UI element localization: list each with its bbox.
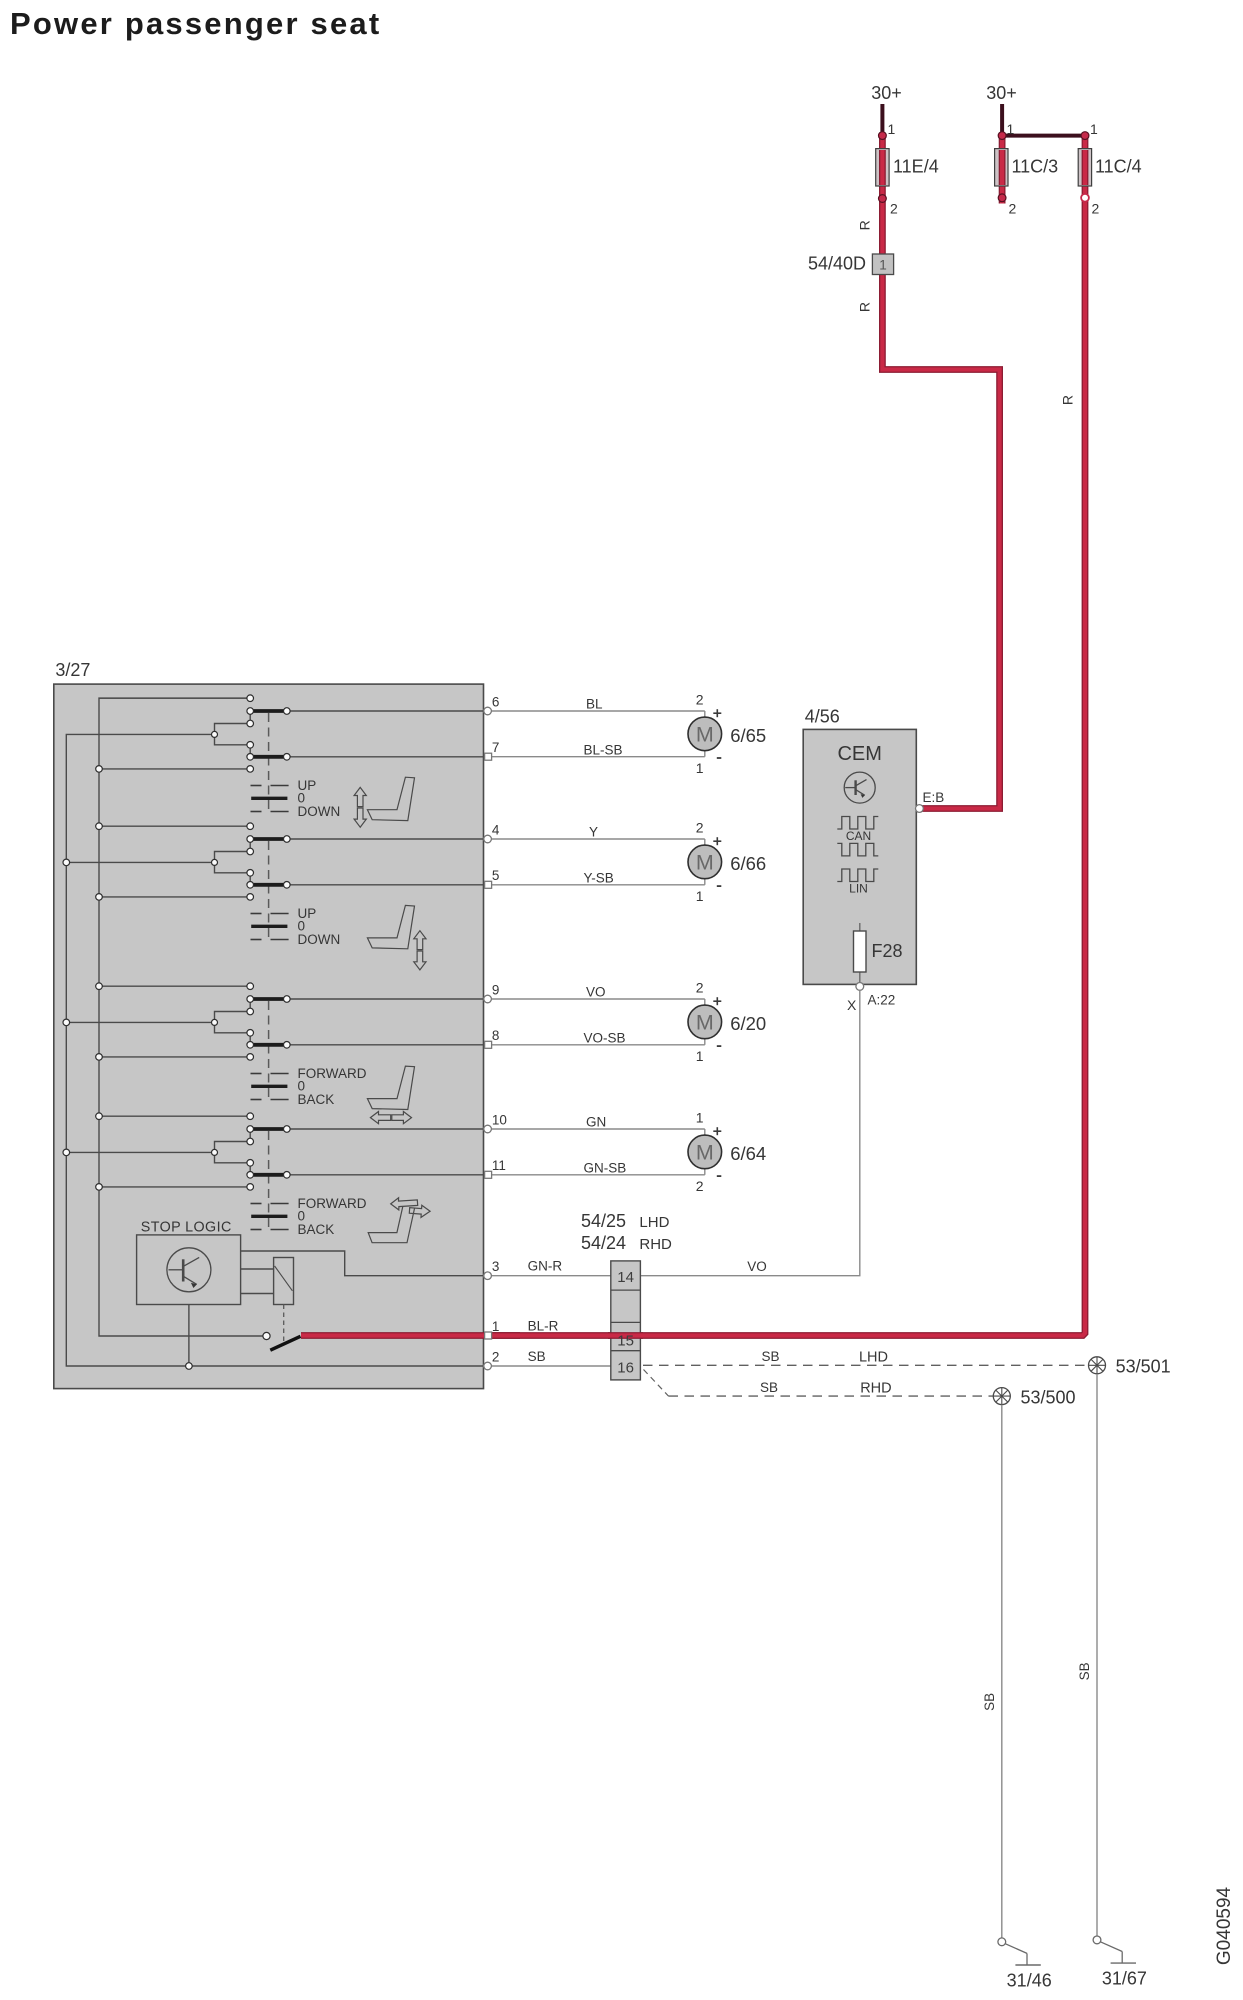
switch group 4 contact links (249, 1129, 251, 1142)
relay coil box (274, 1258, 294, 1305)
svg-text:6: 6 (492, 694, 500, 709)
ground 31/46 (998, 1938, 1006, 1946)
node pin 1 of 11E/4 (879, 132, 887, 140)
svg-text:1: 1 (879, 258, 887, 273)
motor 6/64 (688, 1135, 722, 1169)
switch group 3 output wire 2 (287, 1044, 484, 1046)
svg-text:31/67: 31/67 (1102, 1968, 1147, 1988)
svg-text:53/500: 53/500 (1021, 1388, 1076, 1408)
svg-text:5: 5 (492, 868, 500, 883)
node bus1 taps (96, 766, 103, 773)
svg-text:16: 16 (617, 1360, 634, 1377)
svg-text:Y: Y (589, 825, 598, 840)
svg-text:1: 1 (696, 888, 704, 904)
svg-text:LHD: LHD (639, 1214, 669, 1231)
svg-text:11: 11 (492, 1158, 506, 1173)
switch lever (270, 1336, 300, 1350)
svg-text:CAN: CAN (846, 829, 871, 843)
switch group 3 feed wire top (99, 985, 250, 987)
svg-text:SB: SB (1077, 1662, 1092, 1680)
wire VO from CEM A:22 to connector cell 14 (640, 990, 859, 1275)
svg-text:2: 2 (696, 692, 704, 708)
wire R from 11C/4 down to connector pin 15 row (301, 136, 1085, 1336)
svg-text:11C/3: 11C/3 (1012, 157, 1059, 177)
svg-text:1: 1 (696, 1048, 704, 1064)
fuse F28 (859, 923, 861, 983)
svg-text:LHD: LHD (859, 1349, 888, 1365)
svg-text:CEM: CEM (837, 743, 881, 765)
CAN waveform icon lower (837, 843, 878, 856)
wire SB 53/501 to ground 31/67 (1096, 1374, 1098, 1937)
svg-text:2: 2 (1092, 201, 1100, 217)
switch group 4 mid wire (66, 1151, 214, 1153)
svg-text:2: 2 (696, 980, 704, 996)
switch group 4 contact bar 1 (253, 1127, 285, 1131)
switch group 1 output wire 1 (287, 710, 484, 712)
switch group 1 nodes (247, 695, 254, 702)
svg-text:30+: 30+ (986, 83, 1017, 103)
svg-text:6/66: 6/66 (730, 853, 766, 874)
switch group 4 feed wire top (99, 1115, 250, 1117)
icon backrest tilt (group 4) (368, 1207, 414, 1243)
connector 54/40D (872, 254, 893, 275)
node E:B pin of CEM (916, 805, 924, 813)
node junction group 4 (212, 1149, 218, 1155)
switch group 3 dashed actuator line (268, 1001, 270, 1099)
wire VO-SB pin 8 to motor 6/20 (492, 1044, 705, 1046)
switch group 3 contact links (249, 999, 251, 1012)
svg-text:GN-R: GN-R (528, 1259, 563, 1274)
svg-text:SB: SB (528, 1349, 546, 1364)
wire SB 53/500 to ground 31/46 (1001, 1405, 1003, 1939)
icon seat height front (group 1) (367, 777, 414, 820)
wire GN-SB pin 11 to motor 6/64 (492, 1174, 705, 1176)
wire stop logic to SB bus (188, 1305, 190, 1367)
svg-text:1: 1 (1007, 121, 1015, 137)
wire bus left 2 (SB common) (66, 734, 483, 1366)
wire 30+ stub 2 (1000, 104, 1004, 133)
wire 30+ stub 1 (880, 104, 884, 133)
dashed relay actuator (283, 1305, 285, 1342)
wire R from fuse 11E/4 through 54/40D to CEM E:B (879, 136, 886, 254)
switch group 4 position symbol (251, 1203, 262, 1205)
switch group 1 contact bar 1 (253, 709, 285, 713)
svg-text:31/46: 31/46 (1007, 1970, 1052, 1990)
svg-text:Power passenger seat: Power passenger seat (10, 6, 381, 41)
switch group 2 feed wire top (99, 825, 250, 827)
switch group 1 staircase (215, 724, 251, 745)
svg-text:R: R (856, 220, 872, 230)
switch group 3 contact bar 2 (253, 1043, 285, 1047)
switch group 4 staircase (215, 1142, 251, 1163)
svg-text:2: 2 (696, 820, 704, 836)
svg-text:FORWARD: FORWARD (298, 1066, 367, 1081)
switch group 4 output wire 2 (287, 1174, 484, 1176)
switch group 1 contact bar 2 (253, 755, 285, 759)
switch group 4 nodes (247, 1113, 254, 1120)
svg-text:BACK: BACK (298, 1092, 335, 1107)
switch group 1 output wire 2 (287, 756, 484, 758)
svg-text:15: 15 (617, 1333, 634, 1350)
wire stop logic to relay (241, 1268, 274, 1270)
motor 6/66 (688, 845, 722, 879)
wire bus left (common feed) (99, 698, 263, 1336)
svg-text:54/25: 54/25 (581, 1211, 626, 1231)
ground 31/67 (1093, 1936, 1101, 1944)
svg-text:1: 1 (696, 760, 704, 776)
wire link pin1 11C/3 to pin1 11C/4 (1002, 134, 1085, 138)
svg-text:RHD: RHD (639, 1236, 672, 1253)
switch group 2 nodes (247, 823, 254, 830)
switch group 3 contact bar 1 (253, 997, 285, 1001)
svg-text:M: M (696, 722, 714, 746)
svg-text:DOWN: DOWN (298, 804, 341, 819)
connector strip 54/25 (611, 1261, 641, 1380)
svg-text:RHD: RHD (860, 1380, 891, 1396)
switch group 2 contact links (249, 839, 251, 852)
fuse 11C/3 (995, 149, 1008, 186)
svg-text:11C/4: 11C/4 (1095, 157, 1142, 177)
svg-text:BL: BL (586, 697, 603, 712)
svg-text:4: 4 (492, 822, 500, 837)
svg-text:54/24: 54/24 (581, 1233, 626, 1253)
node bus2 group 4 (63, 1149, 70, 1156)
svg-text:1: 1 (696, 1110, 704, 1126)
ECU CEM box (803, 729, 916, 984)
svg-text:54/40D: 54/40D (808, 254, 866, 274)
switch group 3 nodes (247, 983, 254, 990)
svg-text:M: M (696, 851, 714, 875)
svg-text:BACK: BACK (298, 1222, 335, 1237)
node junction group 2 (212, 859, 218, 865)
node junction group 3 (212, 1019, 218, 1025)
svg-text:BL-SB: BL-SB (584, 742, 623, 757)
svg-text:VO: VO (747, 1259, 767, 1274)
switch group 3 staircase (215, 1012, 251, 1033)
switch group 4 output wire 1 (287, 1128, 484, 1130)
icon seat height rear (group 2) (367, 905, 414, 948)
wire Y pin 4 to motor 6/66 (492, 838, 705, 840)
switch group 4 contact bar 2 (253, 1173, 285, 1177)
svg-text:8: 8 (492, 1028, 500, 1043)
node switch contact (263, 1332, 270, 1339)
svg-text:VO-SB: VO-SB (584, 1030, 626, 1045)
svg-text:DOWN: DOWN (298, 932, 341, 947)
switch group 1 feed wire top (99, 697, 250, 699)
svg-text:LIN: LIN (849, 882, 868, 896)
switch group 2 contact bar 2 (253, 883, 285, 887)
node bus2 group 3 (63, 1019, 70, 1026)
svg-text:3/27: 3/27 (55, 660, 90, 680)
svg-text:11E/4: 11E/4 (893, 157, 939, 177)
svg-text:STOP LOGIC: STOP LOGIC (141, 1220, 232, 1236)
svg-text:Y-SB: Y-SB (584, 870, 614, 885)
switch group 2 mid wire (66, 861, 214, 863)
svg-text:1: 1 (492, 1319, 500, 1334)
icon seat slide (group 3) (367, 1066, 414, 1109)
ground connector 53/500 (993, 1388, 1010, 1405)
wire BL-SB pin 7 to motor 6/65 (492, 756, 705, 758)
wire GN-R pin 3 to connector cell 14 (483, 1275, 611, 1277)
svg-text:GN: GN (586, 1115, 606, 1130)
switch group 3 feed wire bottom (99, 1056, 250, 1058)
svg-text:M: M (696, 1141, 714, 1165)
switch group 2 position symbol (251, 913, 262, 915)
switch group 2 feed wire bottom (99, 896, 250, 898)
switch group 1 feed wire bottom (99, 768, 250, 770)
switch group 4 dashed actuator line (268, 1131, 270, 1229)
switch group 3 position symbol (251, 1073, 262, 1075)
node pin 1 of 11C/3 (998, 132, 1006, 140)
node stop logic SB junction (186, 1363, 193, 1370)
svg-text:6/65: 6/65 (730, 725, 766, 746)
node pin 1 of 11C/4 (1081, 132, 1089, 140)
svg-text:R: R (1060, 395, 1076, 405)
node bus2 group 2 (63, 859, 70, 866)
svg-text:VO: VO (586, 985, 606, 1000)
svg-text:6/64: 6/64 (730, 1143, 766, 1164)
switch group 2 staircase (215, 852, 251, 873)
svg-text:2: 2 (1009, 201, 1017, 217)
switch group 4 feed wire bottom (99, 1186, 250, 1188)
node pin 2 of 11E/4 (879, 195, 887, 203)
svg-text:2: 2 (492, 1349, 500, 1364)
stop logic box (137, 1235, 241, 1305)
wire stop logic to GN-R output (241, 1251, 483, 1276)
svg-text:BL-R: BL-R (528, 1318, 559, 1333)
svg-text:R: R (856, 302, 872, 312)
node A:22 pin of CEM (856, 983, 864, 991)
wire VO pin 9 to motor 6/20 (492, 998, 705, 1000)
pin markers on 3/27 (484, 707, 492, 715)
svg-text:A:22: A:22 (868, 993, 896, 1008)
svg-text:1: 1 (1090, 121, 1098, 137)
motor 6/65 (688, 717, 722, 751)
fuse 11C/4 (1078, 149, 1091, 186)
svg-text:9: 9 (492, 982, 500, 997)
switch group 2 output wire 2 (287, 884, 484, 886)
svg-text:SB: SB (760, 1380, 778, 1395)
wire SB pin 2 to connector cell 16 (483, 1365, 611, 1367)
switch group 1 dashed actuator line (268, 713, 270, 811)
svg-text:M: M (696, 1011, 714, 1035)
svg-text:3: 3 (492, 1259, 500, 1274)
svg-text:F28: F28 (872, 941, 903, 961)
ground connector 53/501 (1089, 1357, 1106, 1374)
wire BL-R through cell 15 (608, 1332, 643, 1339)
svg-text:FORWARD: FORWARD (298, 1196, 367, 1211)
svg-text:30+: 30+ (871, 83, 902, 103)
svg-text:SB: SB (761, 1349, 779, 1364)
switch group 3 output wire 1 (287, 998, 484, 1000)
transistor icon CEM (844, 772, 875, 803)
switch group 2 output wire 1 (287, 838, 484, 840)
fuse 11E/4 (876, 149, 889, 186)
wire BL pin 6 to motor 6/65 (492, 710, 705, 712)
switch group 2 dashed actuator line (268, 841, 270, 939)
svg-text:4/56: 4/56 (805, 707, 840, 727)
switch group 1 contact links (249, 711, 251, 724)
motor 6/20 (688, 1005, 722, 1039)
svg-text:G040594: G040594 (1214, 1886, 1235, 1965)
svg-text:2: 2 (696, 1178, 704, 1194)
transistor icon stop logic (167, 1248, 211, 1292)
switch unit 3/27 box (54, 684, 484, 1389)
svg-text:X: X (847, 997, 857, 1013)
LIN waveform icon (837, 869, 878, 882)
dashed wire SB RHD to 53/500 (644, 1370, 669, 1397)
svg-text:7: 7 (492, 740, 500, 755)
wire through fuse 11C/3 (999, 136, 1006, 204)
switch group 1 position symbol (251, 785, 262, 787)
CAN waveform icon (837, 817, 878, 830)
svg-text:E:B: E:B (923, 790, 945, 805)
svg-text:6/20: 6/20 (730, 1013, 766, 1034)
switch group 2 contact bar 1 (253, 837, 285, 841)
node junction group 1 (212, 731, 218, 737)
svg-text:1: 1 (888, 121, 896, 137)
wire GN pin 10 to motor 6/64 (492, 1128, 705, 1130)
svg-text:SB: SB (982, 1693, 997, 1711)
svg-text:14: 14 (617, 1269, 634, 1286)
wire Y-SB pin 5 to motor 6/66 (492, 884, 705, 886)
svg-text:53/501: 53/501 (1116, 1356, 1171, 1376)
svg-text:GN-SB: GN-SB (584, 1160, 627, 1175)
wire BL-R inside switch unit (301, 1332, 520, 1339)
dashed wire SB LHD to 53/501 (643, 1364, 1089, 1366)
node pin 2 of 11C/3 (998, 194, 1006, 202)
switch group 3 mid wire (66, 1021, 214, 1023)
svg-text:10: 10 (492, 1112, 507, 1127)
node pin 2 of 11C/4 (1081, 194, 1089, 202)
svg-text:2: 2 (890, 201, 898, 217)
